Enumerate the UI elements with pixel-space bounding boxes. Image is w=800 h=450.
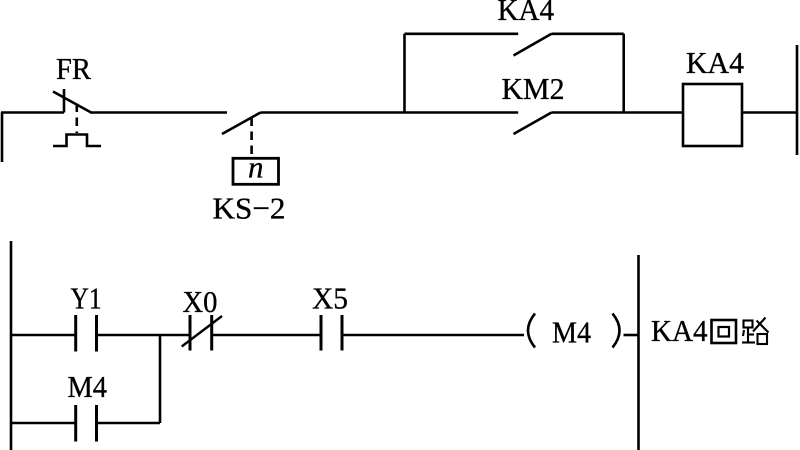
parallel branch top wire right <box>552 32 624 35</box>
wire <box>261 111 519 114</box>
wire <box>342 334 524 337</box>
coil M4 right parenthesis <box>613 314 620 348</box>
node right rail top <box>796 45 799 155</box>
n box of KS-2 <box>233 158 279 184</box>
contact KM2 <box>514 113 552 135</box>
contact Y1 <box>76 315 97 352</box>
svg-text:X5: X5 <box>312 281 348 316</box>
wire <box>552 111 684 114</box>
wire <box>97 422 161 425</box>
coil M4 left parenthesis <box>528 314 535 348</box>
svg-text:Y1: Y1 <box>71 281 102 316</box>
svg-text:KA4: KA4 <box>686 45 744 80</box>
svg-text:KA4: KA4 <box>498 0 555 27</box>
wire <box>97 334 191 337</box>
wire rung 2 <box>11 422 76 425</box>
contact M4 <box>76 405 97 442</box>
contact KA4 <box>514 34 552 56</box>
node right rail (ladder) <box>637 255 640 450</box>
contact X5 <box>321 315 342 351</box>
wire <box>624 334 639 337</box>
wire branch vertical <box>159 335 162 423</box>
wire rung 1 <box>11 334 76 337</box>
contact X0 (NC) <box>182 315 222 351</box>
parallel branch left vertical <box>403 34 406 113</box>
node left rail (ladder) <box>10 241 13 450</box>
parallel branch top wire <box>405 32 519 35</box>
svg-text:M4: M4 <box>68 369 108 404</box>
label 路 (lu) drawn glyph <box>742 318 769 345</box>
svg-text:KM2: KM2 <box>502 71 565 106</box>
svg-text:X0: X0 <box>183 284 218 319</box>
svg-text:FR: FR <box>56 51 91 86</box>
parallel branch right vertical <box>622 34 625 113</box>
wire <box>742 111 797 114</box>
svg-text:KS−2: KS−2 <box>213 191 286 226</box>
coil KA4 box <box>683 84 742 146</box>
svg-text:M4: M4 <box>552 315 591 350</box>
wire <box>1 111 64 114</box>
wire <box>212 334 321 337</box>
svg-text:KA4: KA4 <box>651 313 708 348</box>
svg-text:n: n <box>248 150 264 185</box>
wire <box>91 111 227 114</box>
resistor FR (thermal overload NC contact) <box>53 89 101 146</box>
KS-2 speed switch contact <box>222 113 261 157</box>
label 回 (hui) drawn glyph <box>712 320 737 343</box>
node left stub <box>1 113 4 163</box>
